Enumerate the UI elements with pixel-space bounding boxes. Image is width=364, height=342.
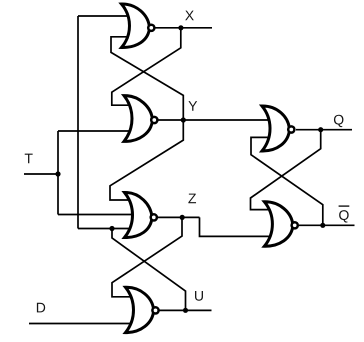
wire Q output bbox=[296, 129, 352, 131]
wire X to gate B top input bbox=[112, 28, 181, 105]
NOR gate G2 (output Y) bbox=[124, 96, 157, 142]
NOR gate G4 (output U) bbox=[126, 287, 159, 332]
wire Y to gate A bottom input bbox=[111, 37, 183, 120]
node U bbox=[183, 308, 188, 313]
wire U feedback to gate C bottom input bbox=[78, 228, 137, 230]
NOR gate G5 (output Q) bbox=[262, 106, 294, 151]
label U bbox=[195, 291, 203, 301]
wire Y output to gate E bbox=[159, 119, 274, 121]
wire node C-in diagonal to U bbox=[112, 229, 186, 311]
wire Y to gate C top input bbox=[110, 120, 183, 200]
wire Z to gate D top input bbox=[112, 217, 182, 296]
label Z bbox=[188, 194, 196, 204]
label Y bbox=[188, 101, 197, 111]
wire Z output bbox=[158, 216, 200, 218]
wire Z to gate F bottom input bbox=[200, 217, 274, 236]
label D bbox=[37, 303, 45, 313]
wire D input bbox=[29, 323, 137, 325]
node C input junction bbox=[109, 226, 114, 231]
node Qbar bbox=[320, 223, 325, 228]
NOR gate G3 (output Z) bbox=[125, 192, 157, 237]
node Q bbox=[318, 127, 323, 132]
label T bbox=[25, 154, 33, 164]
label Q bbox=[334, 115, 344, 127]
wire U output bbox=[160, 309, 212, 311]
node T junction bbox=[55, 171, 60, 176]
wire Qbar to gate E bottom input bbox=[251, 137, 323, 225]
wire X output bbox=[156, 27, 213, 29]
wire U feedback to gate A top input bbox=[78, 15, 131, 17]
wire T lower branch to gate C bbox=[58, 214, 137, 216]
wire Qbar output bbox=[299, 224, 355, 226]
node X bbox=[178, 25, 183, 30]
label X bbox=[185, 11, 194, 21]
wire T vertical branch bbox=[57, 131, 59, 215]
wire Q to gate F top input bbox=[251, 130, 321, 210]
node Z bbox=[180, 215, 185, 220]
wire T upper branch to gate B bbox=[58, 130, 137, 132]
NOR gate G1 (output X) bbox=[122, 4, 155, 48]
NOR gate G6 (output Qbar) bbox=[264, 202, 297, 246]
label Qbar with overline bbox=[339, 206, 350, 222]
wire U feedback vertical bbox=[77, 16, 79, 229]
node Y bbox=[181, 117, 186, 122]
wire T input bbox=[24, 173, 58, 175]
